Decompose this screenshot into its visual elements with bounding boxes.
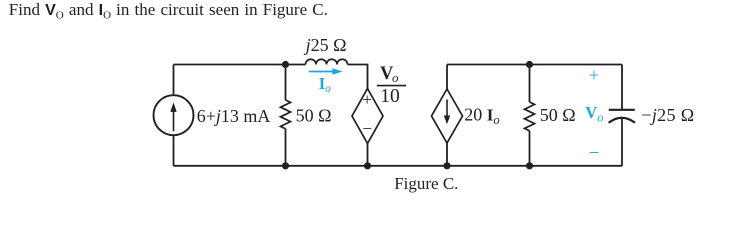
wire top-right horizontal [447, 64, 622, 66]
svg-text:+: + [362, 90, 372, 109]
wire R2 top lead [529, 65, 531, 103]
U2 arrow [444, 100, 450, 125]
wire top-left horizontal [174, 64, 306, 66]
svg-text:10: 10 [380, 86, 400, 107]
current source I1 circle [154, 95, 194, 135]
resistor R1 zigzag [281, 100, 291, 129]
svg-text:Figure C.: Figure C. [394, 174, 458, 193]
dependent current source U2 diamond [432, 89, 463, 143]
wire VS bottom lead [367, 144, 369, 166]
capacitor C1 bottom curved plate [609, 118, 635, 123]
wire middle branch top [285, 65, 287, 101]
current arrow Io (cyan) [309, 68, 343, 74]
wire CS bottom lead [446, 143, 448, 166]
node dot bottom U1 [364, 162, 371, 169]
svg-text:50 Ω: 50 Ω [296, 106, 332, 126]
svg-text:6+j13 mA: 6+j13 mA [197, 106, 271, 126]
node dot top right-loop [526, 61, 533, 68]
wire cap bottom lead [621, 118, 623, 166]
dependent voltage source U1 diamond [352, 89, 383, 144]
wire CS top lead [446, 65, 448, 90]
svg-text:o: o [392, 70, 399, 85]
svg-text:−: − [362, 119, 372, 138]
wire left branch bottom [173, 135, 175, 166]
inductor L1 [306, 59, 348, 64]
node dot bottom U2 [443, 162, 450, 169]
wire left branch top [173, 65, 175, 96]
svg-text:−: − [589, 143, 600, 164]
capacitor C1 top plate [609, 109, 635, 111]
wire middle branch bottom [285, 129, 287, 166]
node dot bottom R1 [282, 162, 289, 169]
node dot bottom R2 [526, 162, 533, 169]
svg-text:−j25 Ω: −j25 Ω [641, 105, 694, 125]
svg-text:+: + [589, 65, 599, 85]
wire cap top lead [621, 65, 623, 110]
node dot top middle [282, 61, 289, 68]
wire bottom horizontal [174, 165, 623, 167]
fraction bar [377, 85, 406, 87]
svg-text:50 Ω: 50 Ω [540, 105, 576, 125]
current source I1 arrow [170, 102, 176, 131]
svg-text:j25 Ω: j25 Ω [304, 35, 347, 55]
wire inductor right lead to corner down [348, 65, 368, 90]
wire R2 bottom lead [529, 131, 531, 166]
resistor R2 zigzag [525, 102, 535, 131]
